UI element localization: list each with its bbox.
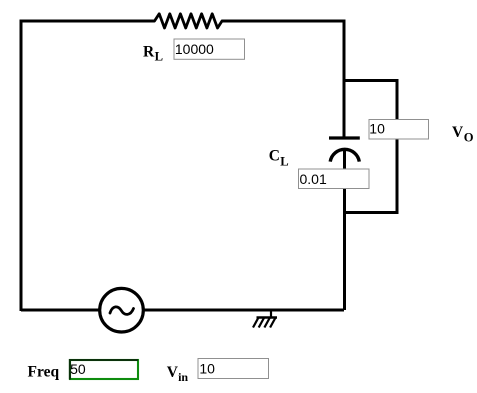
ground symbol hatch 1 <box>253 318 259 328</box>
label CL <box>269 148 289 169</box>
svg-text:50: 50 <box>70 361 86 377</box>
capacitor C1 curved bottom plate <box>330 149 359 161</box>
wire: top-right segment and right vertical down to capacitor <box>222 21 344 137</box>
wire: left and top-left segment <box>21 21 155 311</box>
svg-text:L: L <box>280 155 288 169</box>
resistor R1 zigzag <box>155 14 223 28</box>
label Vin <box>167 364 189 384</box>
wire: below capacitor down to bottom rail <box>343 149 346 310</box>
label RL <box>143 44 163 64</box>
svg-text:10000: 10000 <box>175 41 214 57</box>
svg-text:R: R <box>143 44 155 61</box>
label Vo <box>452 124 474 145</box>
svg-text:V: V <box>167 364 179 381</box>
input box Vo value <box>369 120 429 140</box>
ground symbol hatch 4 <box>270 318 276 328</box>
ground symbol top bar <box>257 316 278 318</box>
svg-text:C: C <box>269 148 280 165</box>
svg-text:L: L <box>155 50 163 64</box>
svg-text:V: V <box>452 124 464 141</box>
ground symbol hatch 3 <box>264 318 270 328</box>
wire: bottom rail <box>21 309 344 312</box>
AC source V1 sine symbol <box>110 307 134 315</box>
input box Freq value (green border) <box>70 360 138 380</box>
svg-text:Freq: Freq <box>28 363 60 380</box>
svg-text:0.01: 0.01 <box>300 171 327 187</box>
ground symbol hatch 2 <box>259 318 265 328</box>
ground stub wire <box>270 310 272 318</box>
AC source V1 circle <box>100 288 144 332</box>
svg-text:10: 10 <box>199 361 215 377</box>
svg-text:O: O <box>464 131 474 145</box>
wire: Vo branch (top, right vertical, bottom) <box>344 81 397 213</box>
capacitor C1 top plate <box>329 136 360 139</box>
svg-text:10: 10 <box>369 121 385 137</box>
input box RL value <box>174 39 245 59</box>
input box Vin value <box>198 359 269 379</box>
input box CL value <box>299 169 370 189</box>
svg-text:in: in <box>178 370 188 384</box>
